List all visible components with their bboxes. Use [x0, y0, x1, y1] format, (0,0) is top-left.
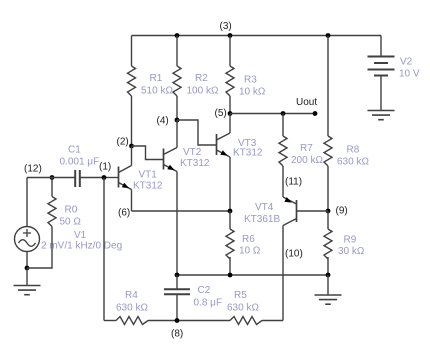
svg-text:(12): (12): [24, 164, 42, 175]
wire top rail node 3: [132, 35, 382, 37]
svg-text:200 kΩ: 200 kΩ: [291, 155, 323, 166]
svg-text:C2: C2: [198, 285, 211, 296]
wire VT3 emitter to node 6: [229, 157, 231, 211]
wire C1 to node 1: [81, 177, 105, 179]
resistor R6: [226, 229, 234, 259]
battery V2: [368, 57, 395, 76]
resistor R1: [128, 66, 136, 96]
source V1: [15, 227, 40, 252]
resistor R9: [324, 229, 332, 259]
transistor VT1: [119, 166, 132, 190]
label V2 value: [399, 57, 420, 80]
svg-text:R9: R9: [344, 235, 357, 246]
wire R5 to VT4 collector: [262, 320, 283, 322]
wire C2 top lead: [176, 275, 178, 289]
label R3 value: [239, 75, 266, 98]
label R7 value: [291, 143, 323, 166]
wire R3 top lead: [229, 36, 231, 67]
transistor VT4: [283, 197, 297, 226]
wire V1 bottom lead: [26, 252, 28, 269]
node (8) junction dot: [175, 318, 180, 323]
wire VT4 collector node 10: [282, 226, 284, 321]
svg-text:V2: V2: [400, 57, 413, 68]
wire VT2 emitter to ground wire: [176, 172, 178, 276]
wire R7 bottom lead to VT4 emitter: [282, 166, 284, 197]
node (4) label: [157, 116, 169, 127]
junction dot ground net at R6: [228, 273, 233, 278]
label V1 value: [41, 230, 122, 252]
svg-text:(11): (11): [285, 177, 302, 188]
Uout terminal dot: [313, 111, 318, 116]
svg-text:R5: R5: [234, 290, 247, 301]
label R2 value: [187, 73, 219, 97]
resistor R4: [116, 317, 148, 325]
ground at net bottom right: [315, 295, 342, 304]
wire R8 top lead: [327, 36, 329, 137]
wire VT3 collector to node 5: [229, 114, 231, 134]
node (4) junction dot: [175, 118, 180, 123]
svg-text:630 kΩ: 630 kΩ: [227, 303, 259, 314]
node (2) junction dot: [129, 144, 134, 149]
svg-text:630 kΩ: 630 kΩ: [337, 157, 369, 168]
label VT2 type: [180, 147, 210, 169]
wire VT4 base to node 9: [297, 210, 329, 212]
wire node 12 to C1: [52, 177, 75, 179]
svg-text:Uout: Uout: [296, 97, 317, 108]
node (3) junction at R8 top: [326, 33, 331, 38]
junction dot V1 bottom: [25, 266, 30, 271]
label Uout: [296, 97, 317, 108]
transistor VT3: [217, 133, 231, 157]
wire ground net: [177, 274, 328, 276]
junction dot at R7 top: [281, 111, 286, 116]
node (3) label: [220, 21, 232, 32]
capacitor C2: [164, 289, 190, 294]
svg-text:510 kΩ: 510 kΩ: [141, 86, 173, 97]
resistor R7: [279, 136, 287, 166]
svg-text:R0: R0: [65, 205, 78, 216]
svg-text:(6): (6): [118, 208, 130, 219]
wire R6 top lead: [229, 211, 231, 229]
node (5) label: [215, 108, 227, 119]
wire R1 top lead: [131, 36, 133, 67]
resistor R8: [324, 136, 332, 166]
wire node 6 (VT1 emitter to R6 top): [132, 210, 231, 212]
transistor VT2: [164, 148, 178, 172]
wire R7 top lead: [282, 114, 284, 137]
svg-text:10 kΩ: 10 kΩ: [239, 87, 266, 98]
wire ground net drop: [327, 275, 329, 295]
svg-text:R3: R3: [244, 75, 257, 86]
label R8 value: [337, 145, 369, 168]
svg-text:R7: R7: [300, 143, 313, 154]
wire node 2 to VT2 base: [132, 146, 164, 160]
svg-text:(1): (1): [99, 162, 111, 173]
wire R1 bottom lead to node 2: [131, 96, 133, 146]
wire V2 top lead: [380, 36, 382, 57]
node (9) junction dot: [326, 209, 331, 214]
resistor R5: [230, 317, 262, 325]
svg-text:KT312: KT312: [133, 181, 163, 192]
label VT3 type: [233, 138, 263, 159]
svg-text:(5): (5): [215, 108, 227, 119]
node (12) label: [24, 164, 42, 175]
wire VT1 emitter to node 6: [131, 190, 133, 212]
svg-text:KT312: KT312: [233, 148, 263, 159]
label R0 value: [60, 205, 82, 228]
svg-text:VT2: VT2: [183, 147, 202, 158]
wire R8 bottom lead to node 9: [327, 166, 329, 211]
svg-text:R8: R8: [347, 145, 360, 156]
wire VT1 collector to node 2: [131, 146, 133, 166]
svg-text:2 mV/1 kHz/0 Deg: 2 mV/1 kHz/0 Deg: [41, 241, 122, 252]
svg-text:C1: C1: [68, 145, 81, 156]
svg-text:(3): (3): [220, 21, 232, 32]
node (1) label: [99, 162, 111, 173]
node (11) label: [285, 177, 302, 188]
wire R3 bottom lead to node 5: [229, 96, 231, 114]
wire R9 top lead: [327, 211, 329, 229]
wire VT2 collector to node 4: [176, 120, 178, 148]
junction dot ground net at R9: [326, 273, 331, 278]
svg-text:(4): (4): [157, 116, 169, 127]
node (3) junction at R2 top: [175, 33, 180, 38]
resistor R0: [48, 197, 56, 227]
wire node 4 to VT3 base: [177, 120, 217, 145]
wire R4 to R5 (node 8 segment): [148, 320, 230, 322]
svg-text:(9): (9): [336, 206, 348, 217]
wire node 1 to VT1 base: [104, 177, 119, 179]
node (10) label: [285, 249, 303, 260]
wire R0 top lead: [51, 178, 53, 197]
svg-text:30 kΩ: 30 kΩ: [338, 246, 365, 257]
svg-text:(2): (2): [117, 137, 129, 148]
wire R2 bottom lead to node 4: [176, 96, 178, 120]
label R1 value: [141, 73, 173, 97]
node (2) label: [117, 137, 129, 148]
node (9) label: [336, 206, 348, 217]
svg-text:R6: R6: [242, 234, 255, 245]
label C2 value: [194, 285, 223, 309]
svg-text:(8): (8): [171, 329, 183, 340]
wire node 5 to Uout: [230, 113, 315, 115]
label R4 value: [116, 290, 148, 314]
label C1 value: [60, 145, 100, 168]
resistor R2: [173, 66, 181, 96]
wire R0 bottom lead: [27, 227, 52, 269]
node (6) label: [118, 208, 130, 219]
label VT4 type: [244, 202, 280, 225]
wire R6 bottom lead: [229, 257, 231, 275]
node (1) junction dot: [102, 175, 107, 180]
wire V1 to ground: [26, 268, 28, 286]
svg-text:0.8 μF: 0.8 μF: [194, 298, 223, 309]
node (12) junction dot: [50, 175, 55, 180]
wire R2 top lead: [176, 36, 178, 67]
svg-text:50 Ω: 50 Ω: [60, 217, 82, 228]
resistor R3: [226, 66, 234, 96]
svg-text:KT361B: KT361B: [244, 214, 280, 225]
node (5) junction dot: [228, 111, 233, 116]
svg-text:10 Ω: 10 Ω: [239, 246, 261, 257]
label R9 value: [338, 235, 365, 258]
wire node 12 to V1: [27, 178, 52, 227]
node (3) junction at R3 top: [228, 33, 233, 38]
svg-text:10 V: 10 V: [399, 69, 420, 80]
label R5 value: [227, 290, 259, 314]
junction dot node 6 at R6 top: [228, 209, 233, 214]
node (8) label: [171, 329, 183, 340]
svg-text:0.001 μF: 0.001 μF: [60, 157, 100, 168]
svg-text:KT312: KT312: [180, 158, 210, 169]
label R6 value: [239, 234, 261, 257]
capacitor C1: [75, 170, 80, 187]
svg-text:VT1: VT1: [139, 170, 158, 181]
junction dot ground net at VT2 emitter / C2: [175, 273, 180, 278]
svg-text:(10): (10): [285, 249, 303, 260]
label VT1 type: [133, 170, 163, 192]
svg-text:R4: R4: [125, 290, 138, 301]
svg-text:R1: R1: [150, 73, 163, 84]
svg-text:VT4: VT4: [255, 202, 274, 213]
wire node 1 drop to bottom rail: [104, 178, 116, 321]
svg-text:630 kΩ: 630 kΩ: [116, 303, 148, 314]
svg-text:R2: R2: [195, 73, 208, 84]
svg-text:100 kΩ: 100 kΩ: [187, 86, 219, 97]
wire C2 bottom lead to node 8: [176, 295, 178, 321]
ground under V2: [368, 111, 395, 120]
wire R9 bottom lead: [327, 257, 329, 275]
ground under V1: [14, 286, 41, 295]
svg-text:V1: V1: [74, 230, 87, 241]
wire V2 bottom lead: [380, 76, 382, 111]
